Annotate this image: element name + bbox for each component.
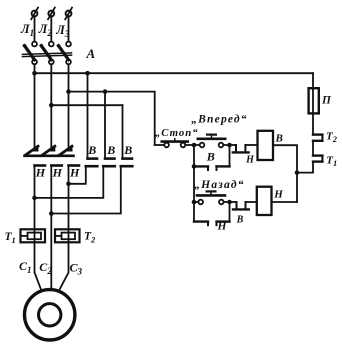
svg-text:В: В bbox=[87, 143, 96, 157]
contactor N main contact 2 bbox=[41, 146, 62, 166]
node coils common bbox=[295, 170, 300, 175]
forward button bbox=[198, 135, 225, 148]
svg-text:В: В bbox=[236, 215, 244, 226]
coil V bbox=[258, 131, 274, 160]
wire bus line1 to fuse bbox=[35, 72, 314, 74]
node V1-phase3 bbox=[66, 182, 71, 187]
terminal L2 bbox=[48, 8, 55, 20]
svg-text:Н: Н bbox=[69, 165, 80, 179]
svg-text:П: П bbox=[321, 95, 332, 107]
wire phase2 lower bbox=[50, 166, 52, 290]
svg-text:„Назад“: „Назад“ bbox=[194, 179, 245, 191]
wire backward to interlock bbox=[224, 201, 237, 203]
node V3-phase2 bbox=[49, 211, 54, 216]
interlock contact V bbox=[233, 202, 257, 209]
wire terminal1 to switch bbox=[34, 17, 36, 42]
fuse P bbox=[309, 88, 319, 113]
svg-text:Т1: Т1 bbox=[5, 231, 16, 245]
svg-text:Н: Н bbox=[245, 155, 255, 166]
wire fuse feed bbox=[312, 73, 314, 88]
wire coil N right bbox=[272, 201, 298, 203]
thermal heater T2 bbox=[55, 229, 80, 242]
contactor V main contact 3 bbox=[121, 159, 133, 167]
wire stop to forward bbox=[185, 144, 199, 146]
contactor V main contact 2 feed bbox=[104, 92, 106, 159]
svg-text:Т1: Т1 bbox=[326, 154, 337, 168]
contactor V main contact 1 feed bbox=[87, 73, 89, 158]
contactor N main contact 3 bbox=[59, 146, 80, 166]
wire common to thermal contacts bbox=[297, 172, 313, 174]
node line2-V2 tap bbox=[103, 89, 108, 94]
wire bus line3 bbox=[51, 104, 122, 106]
knife switch pole 1 bbox=[23, 42, 37, 65]
node line2-phase3 bbox=[66, 89, 71, 94]
knife switch pole 3 bbox=[57, 42, 71, 65]
wire C1 to motor bbox=[35, 242, 41, 289]
wire phase3 lower bbox=[68, 166, 70, 230]
svg-text:„Вперед“: „Вперед“ bbox=[191, 113, 248, 125]
wire forward to interlock bbox=[223, 144, 236, 146]
knife switch linkage bar bbox=[23, 53, 72, 57]
svg-text:Н: Н bbox=[273, 188, 283, 200]
wire T1 down to common bbox=[312, 162, 314, 173]
wire fuse to T2 bbox=[312, 113, 314, 134]
node rail-backward bbox=[192, 200, 197, 205]
interlock contact N bbox=[233, 145, 258, 152]
thermal contact T1 bbox=[313, 156, 322, 162]
wire phase1 lower bbox=[34, 166, 36, 230]
wire V1 output crossover bbox=[69, 166, 86, 184]
terminal L3 bbox=[65, 8, 72, 20]
thermal heater T1 bbox=[21, 229, 46, 242]
node line3-phase2 bbox=[49, 103, 54, 108]
node forward-aux branch bbox=[227, 143, 232, 148]
svg-text:Н: Н bbox=[35, 165, 46, 179]
svg-text:С3: С3 bbox=[70, 261, 83, 277]
wire bus line2 to control bbox=[69, 92, 155, 145]
wire phase3 vertical bbox=[68, 64, 70, 149]
svg-text:В: В bbox=[123, 143, 132, 157]
node stop-forward branch bbox=[192, 143, 197, 148]
svg-text:„Стоп“: „Стоп“ bbox=[155, 127, 199, 139]
svg-text:Л1: Л1 bbox=[20, 22, 34, 38]
svg-text:Т2: Т2 bbox=[84, 231, 96, 245]
svg-text:Н: Н bbox=[52, 165, 63, 179]
wire rail stop branch down bbox=[193, 166, 195, 202]
svg-text:Н: Н bbox=[217, 220, 228, 232]
contactor V main contact 1 bbox=[86, 159, 98, 167]
thermal contact T2 bbox=[313, 135, 322, 141]
contactor V main contact 3 feed bbox=[122, 105, 124, 158]
wire terminal3 to switch bbox=[68, 17, 70, 42]
aux contact N self-hold bbox=[194, 202, 230, 225]
backward button bbox=[194, 191, 225, 204]
svg-text:В: В bbox=[275, 132, 283, 144]
svg-text:С1: С1 bbox=[19, 259, 32, 275]
contactor N main contact 1 bbox=[25, 146, 46, 166]
aux contact V self-hold bbox=[194, 145, 230, 170]
wire T2 to T1 bbox=[312, 141, 314, 156]
svg-text:А: А bbox=[86, 46, 96, 61]
motor rotor bbox=[39, 304, 61, 326]
wire terminal2 to switch bbox=[50, 17, 52, 42]
node backward-aux branch bbox=[227, 200, 232, 205]
wire phase2 vertical bbox=[50, 64, 52, 149]
svg-text:В: В bbox=[206, 150, 215, 164]
svg-text:Т2: Т2 bbox=[326, 130, 338, 144]
wire V2 output crossover bbox=[35, 166, 104, 198]
node line1-V1 tap bbox=[85, 71, 90, 76]
wire C3 to motor bbox=[60, 242, 69, 289]
motor stator bbox=[25, 290, 75, 340]
knife switch pole 2 bbox=[40, 42, 54, 65]
node aux-rail bbox=[192, 164, 197, 169]
coil N bbox=[257, 187, 272, 215]
contactor V main contact 2 bbox=[103, 159, 115, 167]
stop button bbox=[155, 139, 188, 148]
wire coil V right bbox=[273, 145, 297, 202]
terminal L1 bbox=[31, 8, 38, 20]
wire V3 output crossover bbox=[51, 166, 121, 213]
svg-text:С2: С2 bbox=[39, 260, 52, 276]
svg-text:Л2: Л2 bbox=[38, 22, 53, 38]
svg-text:В: В bbox=[106, 143, 115, 157]
wire phase1 vertical bbox=[34, 64, 36, 149]
node line1-phase1 bbox=[32, 71, 37, 76]
node V2-phase1 bbox=[32, 196, 37, 201]
